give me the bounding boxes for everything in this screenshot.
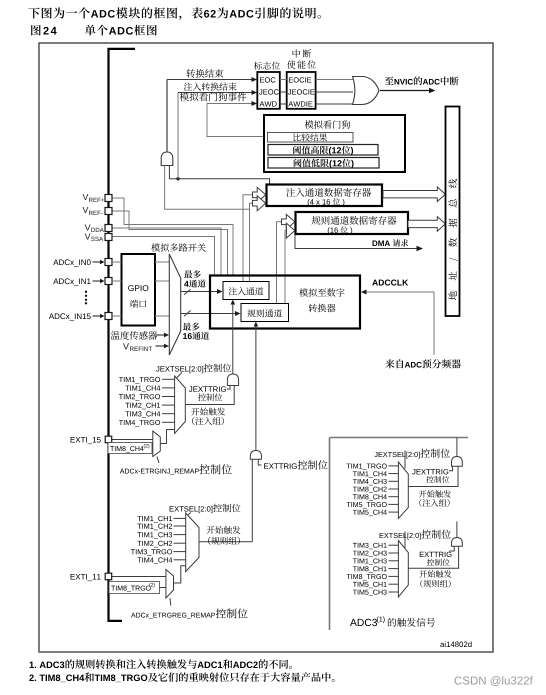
wires enable to OR gate [316, 80, 353, 105]
ADC3 EXTSEL multiplexer [398, 541, 408, 598]
ADC3 label EXTTRIG控制位 [420, 546, 454, 566]
label 模拟看门狗事件 [180, 92, 247, 101]
analog multiplexer [169, 254, 180, 355]
JEXTSEL multiplexer [175, 376, 186, 434]
wire EOC gate output up [166, 80, 168, 153]
bus regular register to data bus [408, 217, 445, 232]
pin ADCx_IN1 [53, 278, 112, 286]
wire TIM8_TRGO to remap mux [160, 587, 166, 589]
label ADCx-ETRGINJ_REMAP控制位 [120, 464, 232, 475]
ADC3 AND gate EXTTRIG [452, 538, 463, 547]
wires GPIO to analog mux [155, 262, 169, 316]
high threshold box [268, 145, 378, 156]
wire remap mux out 2 [174, 566, 186, 583]
wire JEXTSEL mux output [185, 386, 234, 405]
label 使能位 [287, 60, 316, 68]
label 标志位 [254, 62, 280, 70]
label 来自ADC预分频器 [385, 359, 461, 368]
interrupt enable box [287, 72, 316, 109]
label DMA 请求 [373, 239, 409, 246]
pin ADCx_IN0 [53, 259, 112, 267]
label ADC3 JEXTSEL[2:0]控制位 [374, 449, 449, 459]
wire EXTSEL mux to gate [251, 459, 253, 541]
regular channel box [241, 304, 289, 322]
junction dot JEOC net [176, 177, 179, 180]
label 中断 [293, 49, 312, 57]
pin EXTI_11 [71, 573, 112, 581]
ADC3 EXT gate line up [456, 521, 458, 537]
ADC3 JEXT mux output [408, 466, 458, 486]
low threshold box [268, 158, 379, 169]
label ADCCLK [372, 279, 408, 285]
ADC3 EXT mux output [408, 546, 458, 568]
wire JEOC to flag [178, 90, 257, 95]
label 最多16通道 [183, 323, 209, 340]
ellipsis dots [85, 291, 87, 305]
label ai14802d [440, 641, 471, 647]
TIM8_TRGO box [109, 582, 160, 594]
ADC3 JEXTSEL multiplexer [398, 462, 408, 519]
wire EXTI_11 [112, 576, 166, 578]
ADC3 JEXT gate line up [456, 438, 458, 457]
ADC3 EXTSEL inputs [347, 543, 399, 596]
label JEXTTRIG 控制位 [189, 386, 230, 401]
compare result box [268, 133, 354, 143]
ADC3 label 开始触发（规则组） [419, 570, 451, 587]
remap mux ETRGINJ [153, 431, 161, 457]
JEXTSEL trigger inputs [119, 377, 175, 427]
wire mux to regular channel [181, 310, 241, 316]
label VREFINT [123, 343, 169, 351]
remap mux ETRGREG [166, 570, 174, 599]
wire AWD event [207, 101, 267, 137]
pin EXTI_15 [71, 436, 112, 444]
injected channel box [223, 282, 269, 300]
wire VREF- to ADC [112, 211, 228, 276]
label 模拟看门狗 [305, 120, 350, 129]
wire TIM8_CH4 to remap mux [151, 447, 154, 449]
remap control line [157, 457, 159, 464]
injected data register box [267, 185, 383, 207]
wire EXTSEL mux output [199, 541, 252, 543]
label 模拟多路开关 [151, 243, 206, 251]
wire VREF+ to ADC [112, 198, 233, 276]
pin ADCx_IN15 [49, 313, 112, 321]
flags register box [257, 72, 280, 109]
ADC3 JEXTSEL inputs [347, 464, 399, 517]
footnote 1 [30, 659, 292, 669]
wire EXTI_15 [112, 439, 153, 441]
label 至NVIC的ADC中断 [385, 76, 459, 85]
wire ADCCLK [361, 290, 434, 356]
pin VREF- [83, 207, 112, 215]
JEXTSEL select line [177, 373, 183, 379]
remap control line 2 [169, 598, 172, 606]
TIM8_CH4 box [108, 443, 152, 454]
pin VREF+ [83, 194, 112, 202]
label ADCx_ETRGREG_REMAP 控制位 [131, 608, 248, 618]
ADC3 label 开始触发（注入组） [419, 490, 451, 507]
label ADC3 的触发信号 [350, 616, 435, 626]
ADC3 sub-box frame [330, 438, 469, 631]
wire mux to injected channel [181, 289, 223, 295]
EXTSEL multiplexer [186, 513, 199, 572]
pin VSSA [85, 233, 112, 241]
label 模拟至数字转换器 [299, 288, 344, 312]
footnote 2 [29, 672, 334, 682]
wire to NVIC [380, 88, 436, 93]
pin VDDA [85, 224, 112, 232]
wire VSSA to ADC [112, 237, 215, 276]
label ADC3 EXTSEL[2:0]控制位 [380, 530, 451, 540]
label 开始触发（注入组） [191, 408, 225, 426]
wire EOC to flag [167, 77, 257, 82]
wire VDDA to ADC [112, 228, 221, 276]
EXTSEL trigger inputs [131, 516, 186, 564]
wire DMA request [295, 235, 423, 251]
ADC3 JEXTSEL select line [404, 451, 406, 469]
bus injected-channel to injected register (wire B) [250, 196, 266, 282]
OR gate U1 (EOC combine) [161, 152, 173, 166]
EXTSEL select line [187, 513, 191, 516]
AND gate JEXTTRIG [227, 374, 238, 386]
label EXTSEL[2:0]控制位 [170, 504, 241, 513]
address/data bus [446, 107, 460, 317]
figure caption 图24 [31, 25, 157, 36]
watermark [455, 676, 533, 686]
wires pins to GPIO [112, 262, 122, 316]
diagram outer frame [39, 43, 493, 652]
regular data register box [296, 212, 409, 234]
ADC converter box [210, 276, 360, 329]
wire injected-EOC net [169, 165, 269, 185]
ADC3 EXTSEL select line [404, 532, 406, 549]
GPIO port box [122, 254, 156, 326]
label 温度传感器 [111, 331, 169, 340]
analog watchdog box [264, 115, 405, 172]
bus injected-channel to injected register (wire A) [243, 187, 266, 281]
label 开始触发（规则组） [207, 526, 241, 545]
bus regular-channel to regular register (wire D) [285, 223, 295, 303]
title line 1 [28, 7, 321, 20]
bus regular-channel to regular register (wire C) [277, 214, 295, 303]
wire regular trigger up [254, 322, 258, 451]
wire JEOC vertical [177, 93, 179, 179]
ADC3 label JEXTTRIG控制位 [412, 466, 452, 483]
wires flag to enable [280, 80, 287, 105]
label JEXTSEL[2:0]控制位 [156, 364, 231, 373]
wire remap mux out [160, 430, 174, 444]
label EXTTRIG控制位 [258, 459, 327, 469]
label 最多4通道 [184, 270, 206, 287]
label 注入转换结束 [184, 82, 237, 90]
bus injected register to data bus [383, 187, 445, 202]
AND gate EXTTRIG [250, 451, 261, 460]
wire injected trigger up [231, 300, 236, 375]
ADC3 AND gate JEXTTRIG [452, 457, 463, 467]
label 转换结束 [186, 69, 223, 78]
wire regular-EOC from ADC to gate [165, 165, 250, 209]
OR gate U2 (NVIC interrupt) [353, 77, 380, 105]
pin header spine (thick) [109, 49, 136, 621]
